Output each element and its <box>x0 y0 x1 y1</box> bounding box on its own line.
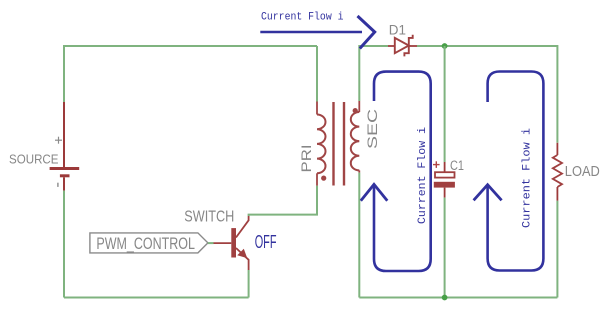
svg-text:PWM_CONTROL: PWM_CONTROL <box>96 235 194 253</box>
svg-text:SWITCH: SWITCH <box>184 209 234 226</box>
wire top-left horizontal <box>64 45 317 47</box>
transformer secondary winding SEC <box>351 101 360 173</box>
svg-text:LOAD: LOAD <box>565 163 600 180</box>
wire emitter down (green) <box>248 270 250 298</box>
transformer polarity dot primary <box>321 176 326 181</box>
transistor Q1 SWITCH <box>214 216 249 270</box>
wire label to base (green) <box>208 242 214 244</box>
wire SEC top up and right to diode (green) <box>359 46 388 101</box>
junction dot top <box>442 43 448 49</box>
wire junction down to C1 (green) <box>444 46 446 162</box>
wire collector up + horizontal to transformer <box>249 186 317 216</box>
svg-text:C1: C1 <box>450 158 464 173</box>
transistor emitter arrow <box>238 250 246 258</box>
svg-text:SOURCE: SOURCE <box>9 152 59 166</box>
wire bottom-left horizontal <box>64 297 249 299</box>
svg-text:OFF: OFF <box>255 232 277 252</box>
diode D1 (schottky) <box>395 35 413 57</box>
transistor base pin <box>214 242 232 244</box>
battery BT SOURCE <box>50 169 80 176</box>
capacitor plus sign <box>433 161 440 168</box>
annotation loop 2 (output current loop) <box>474 72 544 271</box>
resistor R load bottom pin (red) <box>556 187 558 201</box>
transformer core lines <box>334 102 345 186</box>
hierarchical label PWM_CONTROL outline <box>90 233 208 253</box>
wire top wire down to PRI top (green) <box>316 46 318 102</box>
diode D1 pins (red) <box>388 45 417 47</box>
capacitor C1 top pin (red) <box>444 162 446 172</box>
transistor collector diagonal <box>236 216 249 238</box>
wire left vertical upper (green) <box>63 45 65 102</box>
transformer polarity dot secondary <box>353 108 358 113</box>
annotation top arrow Current Flow i <box>260 16 374 49</box>
annotation loop 1 (secondary current loop) <box>361 72 431 271</box>
wire diode to junction and to load corner (green) <box>417 46 557 143</box>
wire load down (green) <box>556 201 558 298</box>
wire SEC bottom down (green) <box>358 173 360 298</box>
resistor R load top pin (red) <box>556 143 558 155</box>
wire battery bottom pin (red) <box>63 177 65 190</box>
svg-text:Current Flow i: Current Flow i <box>261 12 344 24</box>
svg-text:PRI: PRI <box>299 145 314 173</box>
transistor emitter diagonal <box>236 248 249 270</box>
wire battery top pin (red) <box>63 102 65 168</box>
battery minus tick <box>57 183 59 187</box>
svg-text:D1: D1 <box>389 23 406 38</box>
capacitor C1 <box>434 172 455 187</box>
resistor R LOAD zigzag <box>553 155 562 187</box>
svg-text:Current Flow i: Current Flow i <box>522 128 534 228</box>
capacitor C1 bottom pin (red) <box>444 188 446 198</box>
wire secondary bottom horizontal <box>359 297 557 299</box>
svg-text:Current Flow i: Current Flow i <box>417 127 429 224</box>
transistor base bar <box>231 228 236 257</box>
wire left vertical lower (green) <box>63 191 65 298</box>
battery plus sign <box>55 137 62 144</box>
transformer T1 primary winding PRI <box>317 102 326 186</box>
wire C1 down to bottom wire (green) <box>444 198 446 298</box>
svg-text:SEC: SEC <box>365 109 380 149</box>
junction dot bottom <box>442 295 448 301</box>
